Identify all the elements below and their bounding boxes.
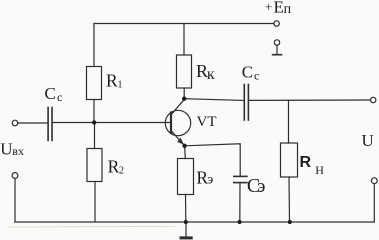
svg-text:п: п (284, 2, 292, 17)
svg-text:R: R (108, 156, 120, 176)
wire R1 bottom branch (93, 100, 95, 123)
wire Ce bottom branch (239, 183, 241, 222)
wire output capacitor to right terminal (249, 99, 370, 101)
svg-text:к: к (207, 66, 215, 83)
svg-text:R: R (300, 154, 312, 171)
node emitter junction (182, 144, 186, 148)
wire R1 top branch (93, 24, 95, 67)
node collector junction (182, 97, 186, 101)
terminal input lower (12, 173, 18, 179)
terminal input upper (12, 120, 18, 126)
power terminal minus bar (273, 54, 282, 56)
svg-text:2: 2 (119, 165, 124, 176)
transistor VT collector lead (172, 100, 185, 115)
svg-text:U: U (0, 139, 12, 158)
wire lower input terminal down (14, 178, 16, 222)
resistor Re (178, 159, 194, 195)
svg-text:U: U (362, 131, 374, 150)
svg-text:E: E (274, 0, 284, 16)
svg-text:1: 1 (118, 79, 123, 90)
wire R2 top branch (94, 123, 96, 149)
capacitor C_c input plates (48, 108, 52, 141)
wire emitter down to Re (184, 146, 187, 159)
wire Rn top branch (288, 100, 290, 143)
node base junction (92, 120, 96, 124)
wire collector node to output capacitor (184, 99, 243, 101)
node Re rail junction (184, 220, 188, 224)
transistor VT body circle (165, 110, 190, 135)
svg-text:C: C (242, 62, 253, 81)
wire base wire (53, 122, 171, 124)
resistor R2 (87, 149, 102, 182)
terminal output upper (371, 97, 376, 102)
wire Rk top branch (183, 24, 185, 56)
wire Re bottom branch (185, 195, 187, 223)
ground bar (181, 236, 191, 239)
transistor VT emitter arrow (177, 138, 184, 145)
wire collector up to Rk (183, 88, 185, 99)
svg-text:c: c (254, 68, 259, 82)
wire lower right terminal down (373, 184, 375, 222)
wire Rn bottom branch (288, 177, 291, 222)
resistor Rn (281, 143, 298, 177)
resistor Rk (177, 55, 192, 88)
wire emitter to Ce branch (185, 144, 241, 176)
wire input terminal to capacitor (18, 122, 47, 124)
ground stem (185, 222, 187, 237)
wire top supply rail (94, 23, 274, 25)
power terminal minus stem (276, 45, 278, 54)
terminal power minus (274, 40, 279, 45)
svg-text:VT: VT (197, 114, 217, 130)
svg-text:Н: Н (315, 163, 324, 177)
scan shadow artifact (decorative) (8, 225, 175, 228)
node Rn rail junction (288, 220, 292, 224)
wire bottom common rail (15, 221, 374, 223)
svg-text:R: R (106, 70, 118, 90)
terminal +Ep (274, 21, 279, 26)
svg-text:э: э (207, 173, 213, 188)
capacitor Ce plates (234, 176, 247, 182)
resistor R1 (87, 67, 102, 100)
terminal output lower (371, 178, 377, 184)
wire R2 bottom branch (94, 182, 96, 223)
transistor VT emitter lead (172, 131, 185, 145)
svg-text:c: c (57, 90, 62, 104)
svg-text:+: + (265, 0, 272, 14)
node Ce rail junction (238, 220, 242, 224)
capacitor C_c output plates (244, 85, 248, 121)
svg-text:вх: вх (12, 144, 24, 158)
transistor VT base bar (170, 113, 172, 134)
svg-text:C: C (45, 84, 56, 103)
svg-text:э: э (257, 176, 265, 197)
